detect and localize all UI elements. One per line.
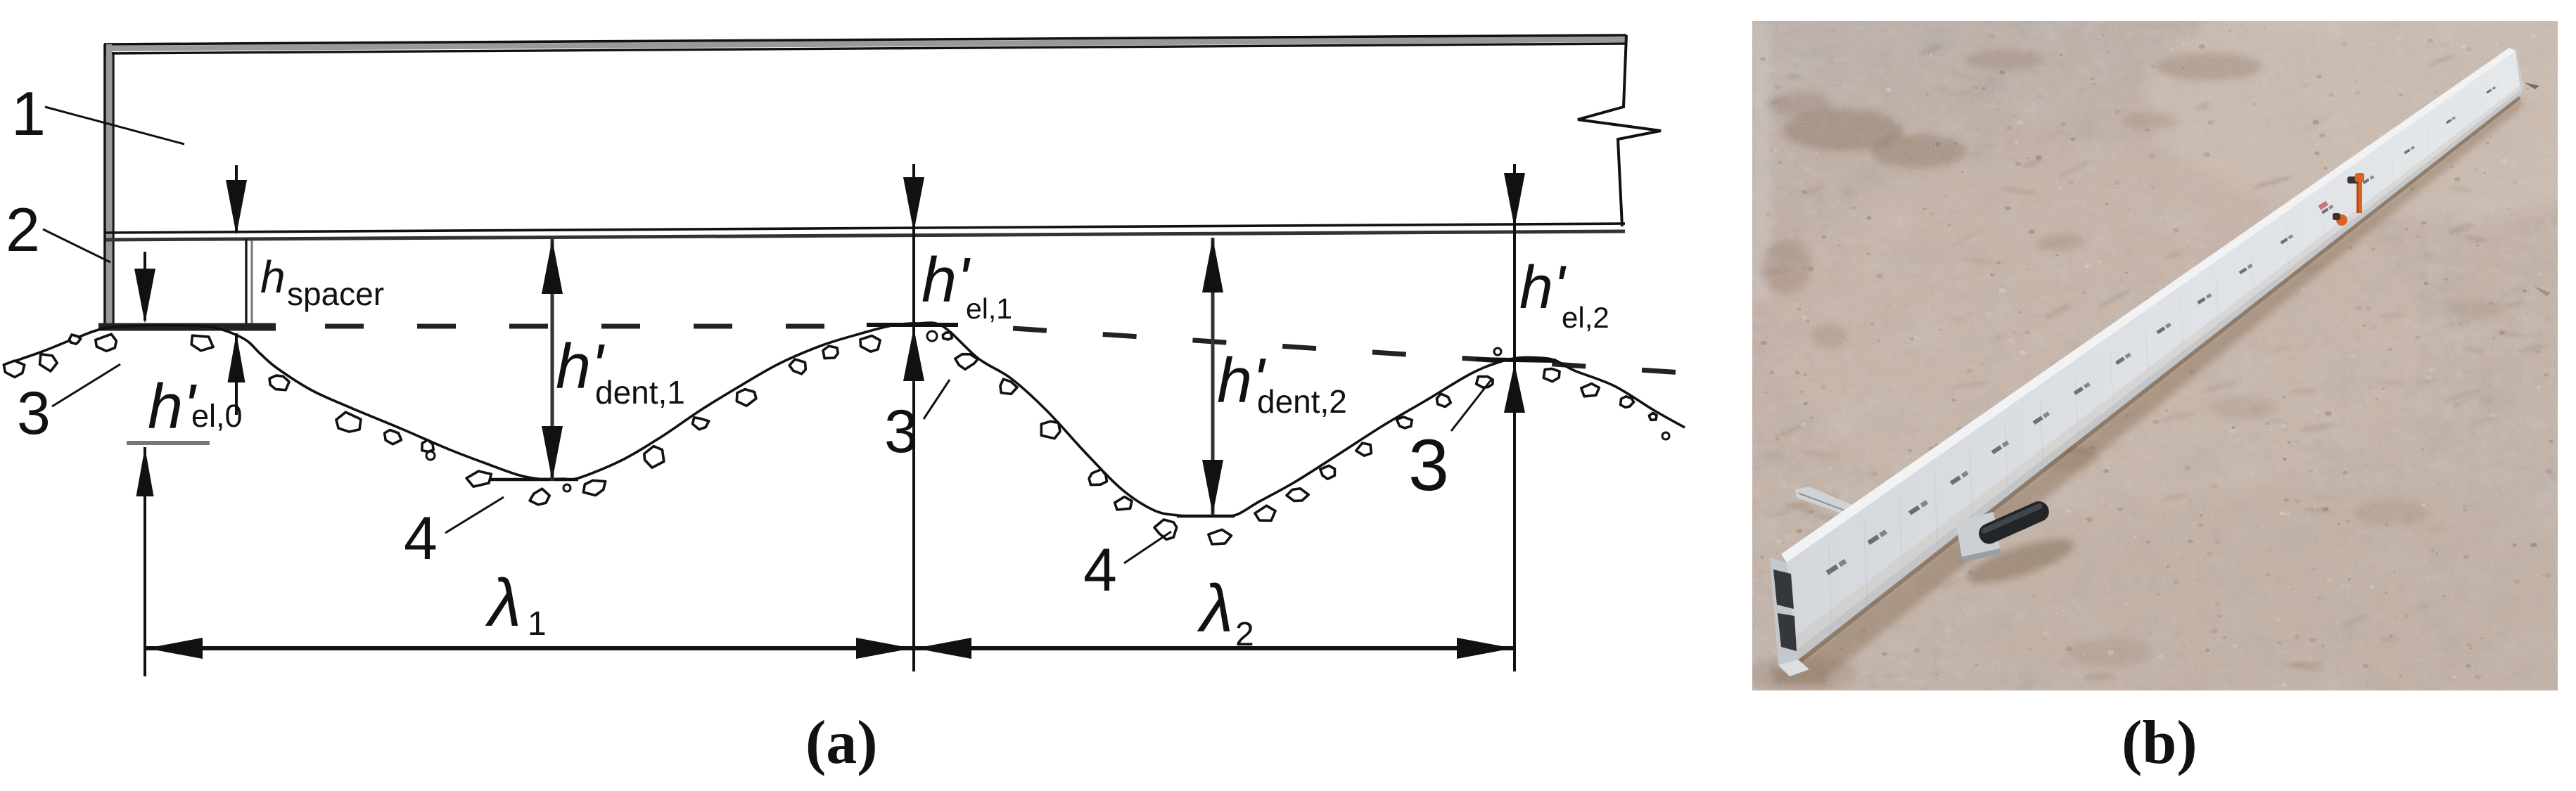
stone (aggregate particle) xyxy=(693,418,709,430)
lambda_2 dimension line xyxy=(914,646,1513,650)
lambda_1 dimension line xyxy=(146,646,912,650)
stone (aggregate particle) xyxy=(1437,394,1451,407)
stone (aggregate particle) xyxy=(40,354,58,371)
tiny stone xyxy=(1494,348,1501,355)
red tick mark on face xyxy=(2318,201,2328,210)
stone (aggregate particle) xyxy=(466,471,491,487)
stone (aggregate particle) xyxy=(336,412,361,432)
leader for label 1 xyxy=(45,107,184,144)
tiny stone xyxy=(426,451,435,460)
handle (black grip) xyxy=(1976,498,2053,547)
stone (aggregate particle) xyxy=(385,430,402,444)
shadow of handle on sand xyxy=(1963,530,2079,591)
near end cap (hollow box profile) xyxy=(1770,558,1798,665)
stone (aggregate particle) xyxy=(269,375,289,390)
h'_el,0 dimension: down arrow inside spacer xyxy=(144,252,146,321)
svg-text:el,0: el,0 xyxy=(191,398,243,434)
leader for label 4 (trough 2) xyxy=(1124,532,1171,563)
leader for left label 3 xyxy=(52,364,120,406)
stone (aggregate particle) xyxy=(737,390,756,406)
svg-text:λ: λ xyxy=(1197,571,1233,646)
svg-text:dent,2: dent,2 xyxy=(1257,383,1347,420)
svg-text:1: 1 xyxy=(11,79,46,148)
leader for label 4 (trough 1) xyxy=(445,497,504,533)
stone (aggregate particle) xyxy=(1649,413,1657,420)
stone (aggregate particle) xyxy=(1477,377,1493,388)
contact shadow line under beam xyxy=(1799,97,2520,662)
leader for label 2 xyxy=(43,229,110,262)
stone (aggregate particle) xyxy=(1543,368,1560,381)
shadow under straightedge xyxy=(1792,98,2525,675)
stone (aggregate particle) xyxy=(955,354,978,370)
dashed reference line left (spacer to crest 1) xyxy=(281,324,872,329)
straightedge top face (bright strip) xyxy=(1781,48,2516,562)
stone (aggregate particle) xyxy=(860,336,880,352)
photo background: sand xyxy=(1752,21,2558,690)
svg-text:spacer: spacer xyxy=(287,276,384,312)
straightedge beam 1: left edge gray core xyxy=(106,44,112,326)
svg-text:el,2: el,2 xyxy=(1562,301,1609,334)
svg-text:1: 1 xyxy=(528,605,547,643)
straightedge beam 1: right end with break symbol xyxy=(1578,35,1661,226)
svg-text:2: 2 xyxy=(1235,616,1254,653)
straightedge beam 1: left edge outer line xyxy=(103,44,106,326)
stone (aggregate particle) xyxy=(1000,379,1017,394)
handle mount bracket xyxy=(1956,512,2000,557)
sand tonal variation xyxy=(1752,21,2558,690)
leader for middle label 3 xyxy=(924,380,950,419)
stone (aggregate particle) xyxy=(583,480,605,495)
spacer 2: right edge lines xyxy=(245,239,247,323)
straightedge beam 1: left edge inner line xyxy=(112,52,114,325)
h'_dent,2 dimension shaft xyxy=(1211,238,1215,515)
stone (aggregate particle) xyxy=(823,346,838,359)
svg-text:2: 2 xyxy=(6,195,40,264)
stone (aggregate particle) xyxy=(1115,497,1132,510)
transverse foot bar xyxy=(1795,487,1878,524)
svg-text:(b): (b) xyxy=(2122,709,2198,777)
orange wedge gauge: vertical stick xyxy=(2357,175,2362,213)
trough 2 tick xyxy=(1177,515,1235,518)
stone (aggregate particle) xyxy=(96,334,117,351)
straightedge beam 1: top edge inner line xyxy=(104,44,1626,53)
stone (aggregate particle) xyxy=(1154,520,1177,539)
straightedge beam 1: top edge outer line xyxy=(104,35,1626,44)
h_spacer dimension: lower shaft + up arrow xyxy=(235,333,238,415)
svg-text:h: h xyxy=(260,252,286,302)
straightedge beam 1: gray core of top edge xyxy=(106,39,1625,49)
tick marks / numbers along beam face xyxy=(1826,559,1847,575)
h'_el,0 up arrow and extension line down to lambda line xyxy=(144,447,146,676)
crest 1 contact tick xyxy=(867,323,958,327)
straightedge front face xyxy=(1787,51,2521,660)
svg-text:4: 4 xyxy=(1083,536,1117,604)
stone (aggregate particle) xyxy=(422,440,433,452)
stone (aggregate particle) xyxy=(1320,465,1335,479)
orange wedge gauge: top knob xyxy=(2347,176,2359,184)
h'_dent,1 dimension shaft xyxy=(551,239,554,481)
stone (aggregate particle) xyxy=(1581,384,1600,397)
svg-text:h': h' xyxy=(148,372,197,442)
stone (aggregate particle) xyxy=(1089,470,1107,485)
straightedge beam 1: bottom edge lower line xyxy=(106,231,1625,240)
svg-text:3: 3 xyxy=(1408,425,1449,506)
svg-text:el,1: el,1 xyxy=(966,292,1012,325)
h'_el,1 dimension + extension line (crest 1) xyxy=(912,164,915,671)
straightedge beam 1: bottom edge upper line xyxy=(106,224,1625,233)
sand speckles xyxy=(2125,272,2128,274)
stone (aggregate particle) xyxy=(1041,421,1060,438)
stone (aggregate particle) xyxy=(789,359,805,374)
svg-text:λ: λ xyxy=(485,565,521,641)
orange wedge gauge: lower knob xyxy=(2336,214,2347,226)
stone (aggregate particle) xyxy=(644,446,664,468)
svg-text:(a): (a) xyxy=(805,709,878,777)
svg-text:4: 4 xyxy=(404,505,438,572)
tiny stone xyxy=(1662,432,1669,439)
stone (aggregate particle) xyxy=(191,335,213,351)
lighter areas xyxy=(2145,0,2576,218)
stone (aggregate particle) xyxy=(1287,489,1308,501)
road surface curve xyxy=(6,323,1685,516)
stone (aggregate particle) xyxy=(1356,443,1372,456)
shadow under near end cap xyxy=(1770,668,1829,685)
small twig near far end xyxy=(2524,82,2539,89)
h_spacer dimension: upper shaft + down arrow xyxy=(235,165,238,232)
stone (aggregate particle) xyxy=(1209,529,1232,544)
svg-text:3: 3 xyxy=(17,380,51,447)
far end cap xyxy=(2509,48,2524,94)
crest 2 contact tick xyxy=(1476,359,1556,361)
fine grain xyxy=(1752,21,2558,690)
darker strip along bottom edge of face xyxy=(1796,90,2521,660)
stone (aggregate particle) xyxy=(943,333,952,340)
tiny stone xyxy=(927,331,937,341)
leader for right label 3 xyxy=(1451,380,1491,431)
spacer 2: thick bottom contact line xyxy=(98,323,276,331)
stone (aggregate particle) xyxy=(1255,506,1275,520)
foot bar shadow on sand xyxy=(1798,503,1863,534)
stone (aggregate particle) xyxy=(70,335,81,344)
dark sand patches xyxy=(1745,49,2504,691)
stone (aggregate particle) xyxy=(1621,397,1634,408)
svg-text:dent,1: dent,1 xyxy=(595,374,685,411)
stone (aggregate particle) xyxy=(1396,417,1412,428)
svg-text:h': h' xyxy=(1519,254,1567,321)
stone (aggregate particle) xyxy=(530,489,549,505)
warm reflection along lower part of face xyxy=(1795,86,2521,660)
svg-text:h': h' xyxy=(922,245,971,316)
tiny stone xyxy=(563,484,570,491)
h'_el,0 reference tick xyxy=(127,441,210,445)
h'_el,2 dimension + extension line (crest 2) xyxy=(1513,164,1516,671)
sand streaks xyxy=(1759,43,2546,681)
dashed reference line right (crest 1 to right end, sloping) xyxy=(1013,328,1714,375)
stone (aggregate particle) xyxy=(4,361,25,377)
trough 1 tick xyxy=(490,478,578,482)
